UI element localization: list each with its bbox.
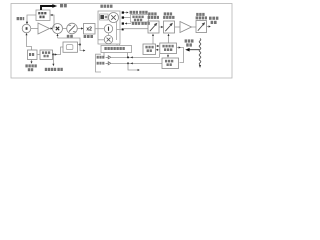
mixer D LO stub — [57, 35, 59, 38]
mixer I — [109, 13, 119, 23]
wire P2 out — [53, 47, 64, 55]
filter E — [67, 23, 78, 34]
AC mains arrow — [185, 48, 189, 52]
wire amp to mixer — [50, 28, 53, 30]
interface box H — [162, 58, 179, 69]
amplifier A2 — [180, 22, 192, 33]
F to G arrows both ways — [156, 45, 159, 47]
driver box F — [143, 44, 156, 55]
detector box B — [36, 10, 50, 21]
wire D to E — [63, 28, 67, 30]
power row1 — [97, 56, 105, 59]
wire feedback right — [50, 15, 54, 29]
LO riser to mixer D — [58, 38, 81, 45]
arrow box1 to box2 — [159, 26, 163, 28]
amplifier A1 — [38, 23, 50, 34]
control risers to attenuators — [152, 35, 154, 44]
attenuator box3 — [196, 21, 207, 33]
modulator box — [98, 11, 120, 44]
wire feedback left — [27, 15, 36, 23]
control interface box M1 — [101, 46, 132, 53]
label modulator — [100, 5, 112, 8]
power row2 — [97, 62, 105, 65]
G out arrow and wire to H right — [177, 48, 184, 63]
mcu box G — [160, 43, 177, 54]
attenuator box2 — [164, 21, 175, 33]
thick monitor arrow — [41, 6, 53, 10]
LO branch right — [80, 45, 85, 51]
row2 box — [124, 17, 131, 19]
node dot — [52, 54, 54, 56]
AC label — [185, 39, 194, 46]
wire box2 to amp2 — [175, 26, 181, 28]
label ext ref — [25, 64, 36, 71]
label RF out — [209, 17, 218, 24]
mixer Q — [104, 35, 112, 43]
ext ref drop — [31, 60, 33, 63]
wire into mixer Q — [98, 39, 104, 41]
wire x2 to modulator — [95, 28, 98, 30]
main RF line to attenuator — [124, 28, 148, 30]
wire into phase splitter — [98, 28, 104, 30]
summing circle A — [22, 24, 31, 33]
ref output drop — [52, 55, 54, 65]
label ref out — [45, 68, 63, 71]
pads on right edge — [122, 11, 124, 30]
attenuator box1 — [148, 21, 159, 33]
DDS chip — [100, 14, 108, 20]
wire E to x2 — [77, 28, 83, 30]
label filter — [67, 35, 73, 38]
row1 I input — [124, 12, 128, 14]
label doubler — [84, 35, 93, 38]
bracket — [96, 54, 102, 72]
wire P1 to P2 — [37, 54, 40, 56]
label monitor out — [60, 4, 67, 8]
svg-text:x2: x2 — [86, 27, 92, 33]
pll box P2 — [40, 50, 53, 60]
wire A bottom to osc — [27, 34, 32, 50]
vco out node — [78, 44, 81, 46]
internal bus vertical — [116, 22, 118, 40]
vco box — [63, 42, 78, 52]
mixer D — [53, 24, 63, 34]
wire A to amp — [31, 28, 38, 30]
M1 drops — [103, 53, 105, 58]
osc box P1 — [28, 50, 38, 60]
RF output arrow — [207, 26, 211, 28]
frame — [11, 4, 232, 79]
doubler x2 — [84, 24, 96, 35]
label AGC node — [17, 17, 25, 20]
AC cord squiggle — [199, 39, 201, 65]
row3 LO input — [126, 23, 132, 25]
link splitter to mixer Q — [108, 33, 110, 36]
wire amp2 to box3 — [192, 26, 197, 28]
G down to H — [167, 54, 169, 57]
phase splitter — [104, 25, 112, 33]
L drop row — [128, 63, 139, 70]
verticals modulator to M1 — [116, 44, 118, 46]
